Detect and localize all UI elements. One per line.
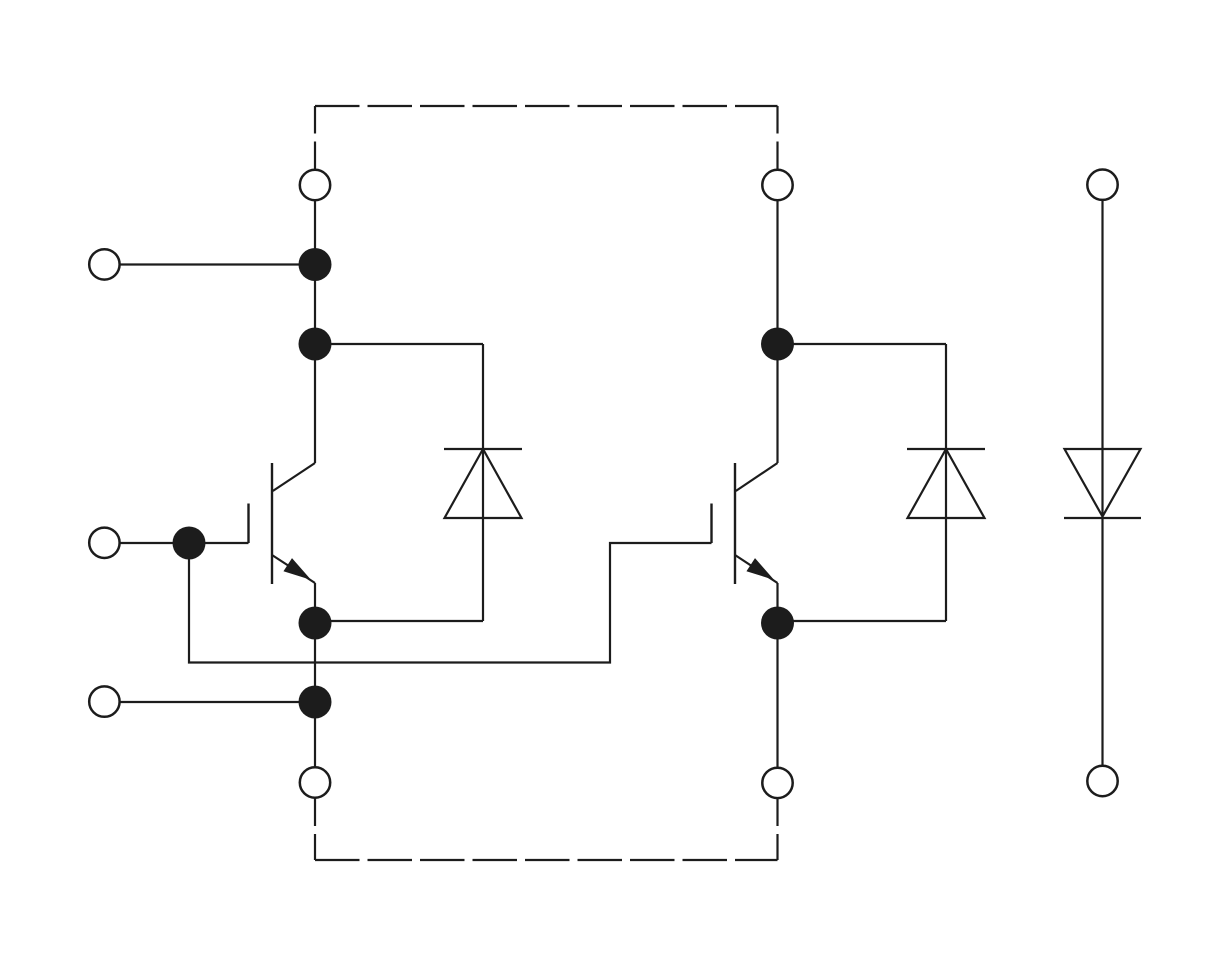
Q1 collector lead diagonal <box>273 463 315 491</box>
terminal: top collector (right branch) <box>762 170 792 200</box>
module case outline top (dashed) <box>315 105 778 107</box>
Q2 collector lead diagonal <box>736 463 778 491</box>
terminal: D3 cathode bottom <box>1087 766 1117 796</box>
node: D2 tap junction <box>761 328 794 361</box>
case stub bottom-right (dashed) <box>776 799 778 861</box>
Q1 body bar <box>271 463 273 584</box>
node: D1 tap junction <box>299 328 332 361</box>
Q1 emitter arrow <box>285 559 309 578</box>
terminal: D3 anode top <box>1087 170 1117 200</box>
terminal: left aux collector <box>89 249 119 279</box>
wire: top-left terminal to collector node <box>314 201 316 265</box>
Q1 gate bar <box>247 504 249 544</box>
D1 cathode bar <box>444 448 522 450</box>
terminal: left gate <box>89 528 119 558</box>
wire: diode tap node down to Q1 collector <box>314 344 316 463</box>
Q2 emitter diagonal <box>735 555 778 583</box>
wire: D2 bottom return to Q2 emitter node <box>778 620 947 622</box>
D3 cathode bar <box>1064 517 1141 519</box>
diode D1 (freewheel, cathode up) <box>444 449 522 518</box>
wire: left aux collector terminal lead <box>120 263 316 265</box>
case stub bottom-left (dashed) <box>314 799 316 861</box>
wire: D1 vertical through symbol <box>482 344 484 621</box>
node: collector junction C1 <box>299 248 332 281</box>
Q1 emitter diagonal <box>272 555 315 583</box>
terminal: bottom emitter (right branch) <box>762 768 792 798</box>
transistor Q2 (IGBT) <box>712 463 778 584</box>
node: aux emitter junction <box>299 686 332 719</box>
module case outline bottom (dashed) <box>315 859 778 861</box>
D3 triangle <box>1065 449 1141 517</box>
Q2 body bar <box>734 463 736 584</box>
case stub top-right (dashed) <box>776 106 778 170</box>
terminal: left aux emitter <box>89 686 119 716</box>
wire: D1 anode-cathode top tap <box>315 343 483 345</box>
wire: D2 vertical through symbol <box>945 344 947 621</box>
Q2 emitter arrow <box>748 559 772 578</box>
wire: D2 top tap <box>778 343 947 345</box>
wire: Q1 emitter to emitter node and down <box>314 583 316 767</box>
wire: Q2 emitter down to bottom-right terminal <box>776 583 778 767</box>
wire: left aux emitter terminal lead <box>120 701 316 703</box>
wire: gate node down-across-up to Q2 gate <box>189 543 712 663</box>
terminal: top collector (left branch) <box>300 170 330 200</box>
terminal: bottom emitter (left branch) <box>300 767 330 797</box>
D2 cathode bar <box>907 448 985 450</box>
wire: top-right terminal down to D2 tap node <box>776 201 778 345</box>
D1 triangle <box>445 449 522 518</box>
wire: collector node to diode tap node <box>314 264 316 344</box>
wire: D1 bottom return to emitter node <box>315 620 483 622</box>
D3 bottom lead <box>1101 518 1103 766</box>
Q2 gate bar <box>710 504 712 544</box>
wire: D2 tap node down to Q2 collector <box>776 344 778 463</box>
case stub top-left (dashed) <box>314 106 316 170</box>
node: Q2 emitter junction <box>761 607 794 640</box>
D2 triangle <box>908 449 985 518</box>
diode D2 (freewheel, cathode up) <box>907 449 985 518</box>
diode D3 (separate, cathode down) <box>1064 201 1141 766</box>
wire: gate terminal lead to Q1 gate <box>120 542 249 544</box>
D3 top lead <box>1101 201 1103 517</box>
node: gate junction <box>173 527 206 560</box>
transistor Q1 (IGBT) <box>249 463 316 584</box>
node: Q1 emitter junction <box>299 607 332 640</box>
